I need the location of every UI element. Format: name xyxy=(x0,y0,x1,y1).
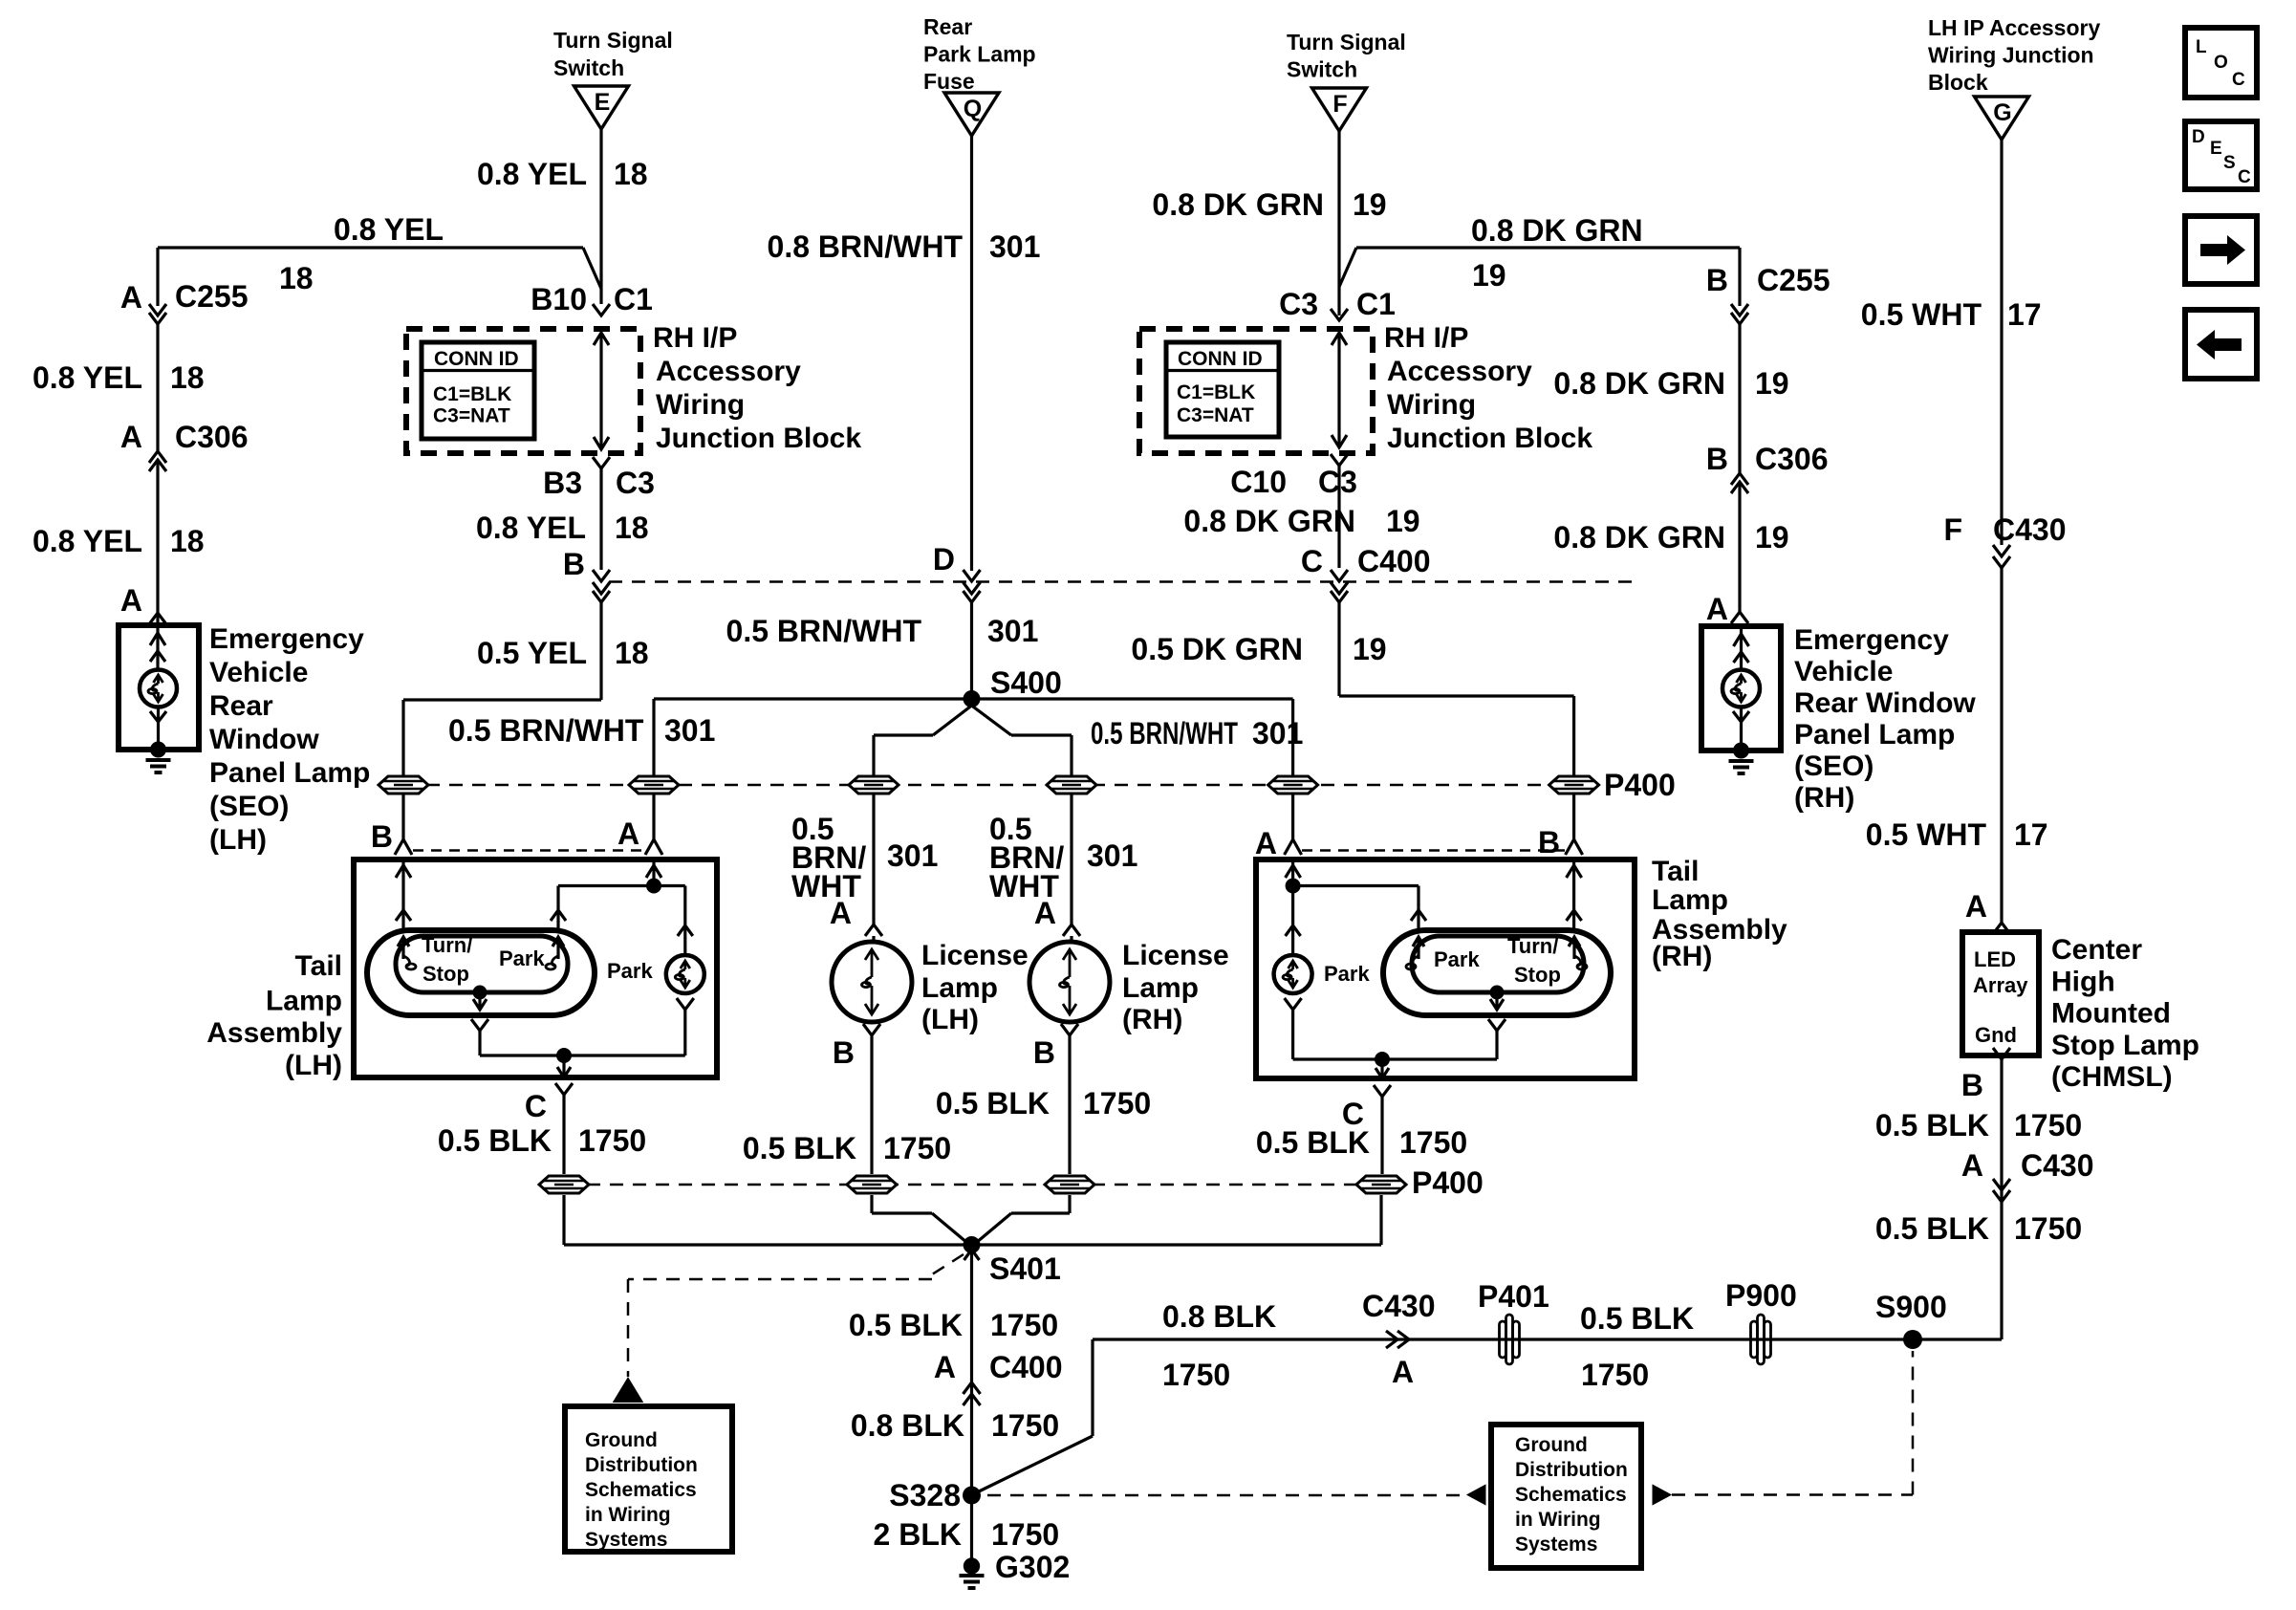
grommet license RH xyxy=(1047,776,1096,794)
svg-text:1750: 1750 xyxy=(1399,1125,1467,1160)
wire RH tail C to S401 xyxy=(1379,1195,1382,1245)
svg-text:0.5 BRN/WHT: 0.5 BRN/WHT xyxy=(726,614,922,648)
svg-text:301: 301 xyxy=(1087,838,1137,873)
Tail Lamp Assembly (LH) box xyxy=(354,859,717,1077)
LH tail B wire internal (Turn/Stop feed) xyxy=(401,859,404,930)
svg-text:0.5 BLK: 0.5 BLK xyxy=(743,1131,856,1165)
svg-text:0.8 YEL: 0.8 YEL xyxy=(32,524,142,558)
wire S400 right leg to RH tail A xyxy=(1291,699,1294,776)
wire 0.8 DK GRN branch to right (horizontal) xyxy=(1356,246,1740,249)
body pass-through dashed row2 xyxy=(564,1184,1381,1186)
EV RH lamp bottom Y xyxy=(1733,711,1749,722)
svg-text:Wiring: Wiring xyxy=(1387,389,1476,421)
RH tail A wire internal xyxy=(1291,859,1294,886)
splice S400 dot xyxy=(964,690,981,707)
wire license LH B to S401 xyxy=(870,1195,873,1213)
svg-text:0.5 BLK: 0.5 BLK xyxy=(1580,1301,1694,1336)
svg-text:19: 19 xyxy=(1386,504,1420,538)
svg-text:19: 19 xyxy=(1472,258,1506,293)
grommet license LH xyxy=(849,776,899,794)
svg-text:CONN ID: CONN ID xyxy=(1178,348,1263,370)
pin chevron B of CHMSL xyxy=(1993,1048,2010,1059)
svg-text:Lamp: Lamp xyxy=(921,972,998,1004)
wire 0.8 YEL 18 branch to C255 (horizontal) xyxy=(158,246,583,249)
LH stadium exit arrow xyxy=(478,992,481,1010)
LH tail A node dot xyxy=(646,879,661,894)
License Lamp (LH) bulb xyxy=(832,942,912,1022)
svg-text:Ground: Ground xyxy=(585,1429,658,1451)
pin chevron A of CHMSL xyxy=(1993,923,2010,934)
svg-text:Mounted: Mounted xyxy=(2051,998,2171,1030)
svg-text:0.8 YEL: 0.8 YEL xyxy=(334,212,444,247)
LH tail C node dot xyxy=(556,1048,572,1063)
svg-text:C3: C3 xyxy=(1279,287,1318,321)
svg-text:B: B xyxy=(1706,442,1728,476)
svg-text:1750: 1750 xyxy=(991,1517,1059,1552)
dashed ref from S401 to left ground box xyxy=(932,1254,964,1274)
svg-text:0.5 BLK: 0.5 BLK xyxy=(438,1123,552,1158)
svg-text:Vehicle: Vehicle xyxy=(1794,656,1893,687)
svg-text:(RH): (RH) xyxy=(1122,1004,1182,1035)
RH park circle bottom Y xyxy=(1285,998,1302,1010)
svg-text:301: 301 xyxy=(987,614,1038,648)
grommet LH tail B xyxy=(379,776,428,794)
svg-text:in Wiring: in Wiring xyxy=(1515,1509,1601,1531)
svg-text:Block: Block xyxy=(1928,70,1988,95)
LH filament common dot xyxy=(473,986,487,1000)
svg-text:Turn/: Turn/ xyxy=(1507,934,1558,958)
svg-text:1750: 1750 xyxy=(1162,1358,1230,1392)
ref arrow up (left ground box) xyxy=(615,1379,642,1402)
RH dual-filament bulb stadium xyxy=(1383,930,1611,1015)
connector C306 chevrons (right) xyxy=(1731,473,1748,485)
wire 0.5 WHT 17 from junction block G xyxy=(2000,140,2003,545)
ground symbol G (EV RH) xyxy=(1729,759,1754,763)
ground G302 dot xyxy=(964,1557,980,1574)
svg-text:A: A xyxy=(1034,896,1056,930)
S401 lower chevron xyxy=(964,1250,980,1260)
wire RH tail A drop xyxy=(1291,794,1294,839)
svg-text:19: 19 xyxy=(1353,187,1387,222)
svg-text:0.5 BLK: 0.5 BLK xyxy=(1875,1211,1989,1246)
license LH pin chevron xyxy=(865,925,882,936)
LH stadium exit Y xyxy=(471,1019,488,1031)
svg-text:Park: Park xyxy=(499,946,545,970)
svg-text:19: 19 xyxy=(1755,366,1789,401)
connector C430 chevrons (bus) xyxy=(1386,1331,1397,1348)
svg-text:0.5 BLK: 0.5 BLK xyxy=(1256,1125,1370,1160)
license RH bottom Y xyxy=(1061,1024,1078,1035)
svg-text:0.5 WHT: 0.5 WHT xyxy=(1866,817,1987,852)
svg-text:CONN ID: CONN ID xyxy=(434,348,519,370)
svg-text:RH I/P: RH I/P xyxy=(653,322,737,354)
svg-text:A: A xyxy=(830,896,852,930)
connector triangle F xyxy=(1312,88,1367,131)
LH bulb inner envelope xyxy=(396,936,568,992)
svg-text:C: C xyxy=(1301,544,1323,578)
svg-text:Park: Park xyxy=(1324,962,1370,986)
RH bulb inner envelope xyxy=(1412,936,1584,992)
legend box LOC xyxy=(2185,28,2257,98)
svg-text:18: 18 xyxy=(614,157,648,191)
svg-text:Panel Lamp: Panel Lamp xyxy=(209,757,370,789)
svg-text:Wiring Junction: Wiring Junction xyxy=(1928,43,2094,68)
wire LH tail B drop xyxy=(401,794,404,839)
svg-text:Gnd: Gnd xyxy=(1975,1023,2017,1047)
connector C/C400 chevrons xyxy=(1331,570,1348,581)
svg-text:C306: C306 xyxy=(1755,442,1829,476)
svg-text:L: L xyxy=(2196,37,2207,57)
RH tail bottom bus xyxy=(1293,1057,1497,1060)
svg-text:C1: C1 xyxy=(614,282,653,316)
svg-text:Park: Park xyxy=(607,959,653,983)
svg-text:E: E xyxy=(2210,139,2222,159)
grommet license RH B xyxy=(1045,1176,1094,1193)
svg-text:Wiring: Wiring xyxy=(656,389,745,421)
svg-text:A: A xyxy=(120,583,142,618)
svg-text:P400: P400 xyxy=(1604,768,1676,802)
svg-text:S400: S400 xyxy=(990,665,1062,700)
svg-text:High: High xyxy=(2051,966,2115,997)
license LH bottom Y xyxy=(863,1024,880,1035)
svg-text:LED: LED xyxy=(1974,947,2016,971)
svg-text:0.8 YEL: 0.8 YEL xyxy=(476,511,586,545)
svg-text:1750: 1750 xyxy=(991,1408,1059,1443)
connector A/C400 chevrons (bottom) xyxy=(964,1382,981,1394)
legend box right-arrow xyxy=(2185,216,2257,284)
pin chevron A of EV RH lamp xyxy=(1731,612,1748,623)
svg-text:1750: 1750 xyxy=(2014,1108,2082,1142)
LH tail bottom bus xyxy=(480,1054,685,1056)
RH filament common dot xyxy=(1490,986,1505,1000)
svg-text:(RH): (RH) xyxy=(1652,941,1712,972)
svg-text:B: B xyxy=(1033,1035,1055,1070)
grommet RH tail A xyxy=(1268,776,1318,794)
LH Turn/Stop filament xyxy=(401,937,404,959)
svg-text:C: C xyxy=(2232,70,2245,90)
EV LH lamp bulb xyxy=(140,670,177,707)
junction block2 internal arrow xyxy=(1337,333,1340,447)
grommet RH tail B / P400 xyxy=(1549,776,1599,794)
svg-text:1750: 1750 xyxy=(1083,1086,1151,1120)
LH tail A branch horizontal xyxy=(558,884,685,887)
wire 0.5 BRN/WHT to S400 xyxy=(970,602,973,699)
svg-text:0.5 BRN/WHT: 0.5 BRN/WHT xyxy=(1091,716,1238,751)
svg-text:C3=NAT: C3=NAT xyxy=(1177,404,1254,426)
svg-text:0.5 BRN/WHT: 0.5 BRN/WHT xyxy=(448,713,644,748)
EV RH internal arrow xyxy=(1740,626,1743,669)
svg-text:17: 17 xyxy=(2014,817,2048,852)
svg-text:C255: C255 xyxy=(175,279,249,314)
svg-text:0.8 DK GRN: 0.8 DK GRN xyxy=(1152,187,1324,222)
svg-text:Rear: Rear xyxy=(923,14,972,39)
connector C1 chevron (block1) xyxy=(593,304,610,315)
LH park circle bottom Y xyxy=(677,998,694,1010)
svg-text:1750: 1750 xyxy=(883,1131,951,1165)
svg-text:P400: P400 xyxy=(1412,1165,1484,1200)
svg-text:0.8 BLK: 0.8 BLK xyxy=(851,1408,964,1443)
wire license RH B to S401 xyxy=(1068,1195,1071,1213)
EV RH ground dot xyxy=(1733,743,1749,759)
svg-text:B: B xyxy=(563,547,585,581)
svg-text:Tail: Tail xyxy=(1652,856,1699,887)
svg-text:B3: B3 xyxy=(543,466,582,500)
svg-text:G: G xyxy=(1993,99,2011,126)
RH tail C pin chevron xyxy=(1374,1085,1391,1097)
svg-text:A: A xyxy=(1392,1355,1414,1389)
svg-text:Array: Array xyxy=(1973,973,2028,997)
svg-text:S328: S328 xyxy=(889,1478,961,1512)
wire S400 diagonals to license lamps xyxy=(933,706,972,735)
svg-text:B: B xyxy=(371,819,393,854)
LH park circle bulb xyxy=(666,955,704,993)
svg-text:A: A xyxy=(120,280,142,315)
svg-text:18: 18 xyxy=(170,524,205,558)
LH tail C exit xyxy=(562,1055,565,1077)
svg-text:D: D xyxy=(2192,127,2205,147)
firewall dashed line P400 row1 xyxy=(403,784,1573,787)
svg-text:0.8 BRN/WHT: 0.8 BRN/WHT xyxy=(768,229,964,264)
svg-text:(RH): (RH) xyxy=(1794,782,1854,814)
legend box DESC xyxy=(2185,121,2257,189)
svg-text:LH IP Accessory: LH IP Accessory xyxy=(1928,15,2100,40)
RH stadium exit Y xyxy=(1488,1019,1505,1031)
svg-text:301: 301 xyxy=(887,838,938,873)
svg-text:0.5 DK GRN: 0.5 DK GRN xyxy=(1131,632,1303,666)
svg-text:D: D xyxy=(933,542,955,577)
svg-text:(LH): (LH) xyxy=(209,824,267,856)
LH tail pin row dashed xyxy=(413,849,644,852)
svg-text:Switch: Switch xyxy=(553,55,624,80)
svg-text:in Wiring: in Wiring xyxy=(585,1504,671,1526)
wire S328 riser diagonal xyxy=(979,1436,1093,1491)
svg-text:Distribution: Distribution xyxy=(585,1454,698,1476)
svg-text:(CHMSL): (CHMSL) xyxy=(2051,1061,2173,1093)
svg-text:Assembly: Assembly xyxy=(206,1017,342,1049)
splice S328 dot xyxy=(963,1487,981,1505)
svg-text:F: F xyxy=(1332,91,1347,118)
firewall dashed line (C400) xyxy=(609,580,1637,583)
svg-text:0.5 BLK: 0.5 BLK xyxy=(936,1086,1050,1120)
svg-text:301: 301 xyxy=(664,713,715,748)
RH tail C exit xyxy=(1380,1059,1383,1078)
RH tail B wire internal (Turn/Stop feed) xyxy=(1572,859,1575,930)
Emergency Vehicle Rear Window Panel Lamp (SEO)(RH) box xyxy=(1701,626,1781,751)
svg-text:C3: C3 xyxy=(1318,465,1357,499)
svg-text:18: 18 xyxy=(615,511,649,545)
svg-text:17: 17 xyxy=(2007,297,2042,332)
wire 0.5 BLK from RH tail C xyxy=(1380,1097,1383,1174)
svg-text:Window: Window xyxy=(209,724,319,755)
svg-text:301: 301 xyxy=(1252,716,1303,751)
svg-text:C3=NAT: C3=NAT xyxy=(433,405,510,427)
svg-text:0.8 DK GRN: 0.8 DK GRN xyxy=(1553,366,1725,401)
wire 0.8 BRN/WHT 301 from fuse Q xyxy=(970,135,973,571)
svg-text:C1: C1 xyxy=(1356,287,1396,321)
wire RH tail B drop xyxy=(1572,794,1575,839)
svg-text:0.8 YEL: 0.8 YEL xyxy=(32,360,142,395)
svg-text:Distribution: Distribution xyxy=(1515,1459,1628,1481)
RH park filament feed xyxy=(1417,886,1419,931)
inline connector P900 xyxy=(1751,1315,1771,1364)
svg-text:License: License xyxy=(1122,940,1229,971)
svg-text:C306: C306 xyxy=(175,420,249,454)
svg-text:0.8 DK GRN: 0.8 DK GRN xyxy=(1183,504,1355,538)
svg-text:Turn/: Turn/ xyxy=(422,933,472,957)
svg-text:Schematics: Schematics xyxy=(1515,1484,1627,1506)
svg-text:18: 18 xyxy=(279,261,314,295)
wire 0.5 YEL to LH tail B xyxy=(599,602,602,700)
svg-text:A: A xyxy=(1961,1148,1983,1183)
grommet LH tail A xyxy=(629,776,679,794)
svg-text:Stop: Stop xyxy=(422,962,469,986)
pin chevron A of EV LH lamp xyxy=(149,613,166,624)
Center High Mounted Stop Lamp (CHMSL) box xyxy=(1962,932,2039,1055)
svg-text:301: 301 xyxy=(989,229,1040,264)
svg-text:0.8 YEL: 0.8 YEL xyxy=(477,157,587,191)
svg-text:(SEO): (SEO) xyxy=(209,791,289,822)
svg-text:Lamp: Lamp xyxy=(266,986,342,1017)
svg-text:0.5 BLK: 0.5 BLK xyxy=(1875,1108,1989,1142)
wire 0.5 WHT 17 to CHMSL xyxy=(2000,568,2003,923)
svg-text:Park Lamp: Park Lamp xyxy=(923,42,1036,67)
svg-text:18: 18 xyxy=(615,636,649,670)
RH I/P Accessory Wiring Junction Block 2 (dashed) xyxy=(1139,329,1373,453)
svg-text:Ground: Ground xyxy=(1515,1434,1588,1456)
svg-text:RH I/P: RH I/P xyxy=(1384,322,1468,354)
svg-text:S: S xyxy=(2223,153,2236,173)
svg-text:C430: C430 xyxy=(1993,512,2067,547)
svg-text:P900: P900 xyxy=(1725,1278,1797,1313)
svg-text:A: A xyxy=(617,816,639,851)
junction block1 internal arrow xyxy=(599,333,602,449)
LH park filament feed xyxy=(556,886,559,931)
RH Park filament xyxy=(1417,937,1419,959)
svg-text:Lamp: Lamp xyxy=(1652,884,1728,916)
svg-text:0.5 WHT: 0.5 WHT xyxy=(1861,297,1982,332)
wire 0.5 DK GRN to RH tail B xyxy=(1337,602,1340,696)
splice S900 dot xyxy=(1903,1330,1922,1349)
svg-text:2 BLK: 2 BLK xyxy=(874,1517,962,1552)
svg-text:S900: S900 xyxy=(1875,1290,1947,1324)
connector C255 chevrons xyxy=(156,248,159,306)
svg-text:G302: G302 xyxy=(995,1550,1070,1584)
svg-text:Junction Block: Junction Block xyxy=(1387,423,1592,454)
svg-text:(SEO): (SEO) xyxy=(1794,751,1874,782)
svg-text:1750: 1750 xyxy=(2014,1211,2082,1246)
svg-text:Tail: Tail xyxy=(295,950,342,982)
svg-text:Emergency: Emergency xyxy=(1794,624,1949,656)
connector C3 chevron below block1 xyxy=(593,457,610,468)
wire 0.8 BLK ground bus horizontal xyxy=(1093,1338,2002,1340)
svg-text:B10: B10 xyxy=(531,282,587,316)
wire 0.5 BLK S401 down xyxy=(970,1245,973,1566)
svg-text:0.8 DK GRN: 0.8 DK GRN xyxy=(1471,213,1643,248)
dashed ref S900 to right ground box xyxy=(1672,1493,1913,1496)
LH park circle feed xyxy=(683,886,686,956)
RH park circle feed xyxy=(1291,886,1294,956)
svg-text:Systems: Systems xyxy=(585,1529,667,1551)
svg-text:Stop Lamp: Stop Lamp xyxy=(2051,1030,2199,1061)
svg-text:C255: C255 xyxy=(1757,263,1830,297)
LH Park filament xyxy=(556,937,559,959)
CONN ID table (block1) xyxy=(422,342,534,439)
svg-text:0.5 YEL: 0.5 YEL xyxy=(477,636,587,670)
svg-text:C430: C430 xyxy=(1362,1289,1436,1323)
RH park circle bulb xyxy=(1274,955,1312,993)
svg-text:Accessory: Accessory xyxy=(1387,356,1532,387)
dashed ref S328 to right ground box xyxy=(987,1494,1466,1497)
RH tail pin row dashed xyxy=(1302,849,1565,852)
svg-text:A: A xyxy=(934,1350,956,1384)
License Lamp (RH) bulb xyxy=(1029,942,1110,1022)
RH stadium exit arrow xyxy=(1495,992,1498,1010)
Ground Distribution Schematics box (left) xyxy=(565,1406,732,1552)
connector F/C430 chevrons xyxy=(1993,545,2010,556)
svg-text:Rear: Rear xyxy=(209,690,273,722)
wire S400 left leg to LH tail A xyxy=(652,699,655,776)
LH tail C pin chevron xyxy=(555,1083,573,1095)
connector C3 chevron below block2 xyxy=(1331,454,1348,466)
grommet license LH B xyxy=(847,1176,897,1193)
EV LH internal arrow xyxy=(156,625,159,670)
svg-text:C3: C3 xyxy=(616,466,655,500)
svg-text:A: A xyxy=(1706,592,1728,626)
EV RH lamp bulb xyxy=(1722,670,1760,707)
svg-text:Fuse: Fuse xyxy=(923,69,975,94)
ground symbol G (EV LH) xyxy=(146,758,171,762)
svg-text:C430: C430 xyxy=(2021,1148,2094,1183)
LH dual-filament bulb stadium xyxy=(367,930,595,1015)
svg-text:1750: 1750 xyxy=(990,1308,1058,1342)
svg-text:E: E xyxy=(595,89,611,116)
connector triangle G xyxy=(1975,97,2029,140)
svg-text:Park: Park xyxy=(1434,947,1480,971)
svg-text:Q: Q xyxy=(964,96,982,122)
svg-text:O: O xyxy=(2214,53,2228,73)
svg-text:C10: C10 xyxy=(1230,465,1287,499)
svg-text:F: F xyxy=(1943,512,1962,547)
svg-text:Turn Signal: Turn Signal xyxy=(553,28,673,53)
svg-text:Systems: Systems xyxy=(1515,1534,1597,1556)
RH tail A node dot xyxy=(1286,879,1301,894)
wire 0.8 DK GRN 19 right branch down xyxy=(1738,248,1741,306)
EV LH ground dot xyxy=(150,742,166,758)
connector D/C400 chevrons xyxy=(964,570,981,581)
svg-text:1750: 1750 xyxy=(1581,1358,1649,1392)
svg-text:C400: C400 xyxy=(1357,544,1431,578)
ground symbol G302 xyxy=(960,1574,985,1577)
connector C255 chevrons (right) xyxy=(1731,304,1748,315)
svg-text:19: 19 xyxy=(1353,632,1387,666)
connector triangle Q xyxy=(944,93,999,136)
connector B/C400 chevrons at firewall xyxy=(593,570,610,581)
wire LH tail A drop xyxy=(652,794,655,839)
RH tail C node dot xyxy=(1375,1052,1390,1067)
svg-text:Schematics: Schematics xyxy=(585,1479,697,1501)
svg-text:B: B xyxy=(1961,1068,1983,1102)
svg-text:C: C xyxy=(525,1089,547,1123)
svg-text:C1=BLK: C1=BLK xyxy=(1177,381,1255,403)
Ground Distribution Schematics box (right) xyxy=(1491,1425,1641,1568)
splice S401 dot xyxy=(964,1236,981,1253)
svg-text:A: A xyxy=(120,420,142,454)
svg-text:B: B xyxy=(1706,263,1728,297)
grommet RH tail C / P400 row2 xyxy=(1356,1176,1406,1193)
svg-text:A: A xyxy=(1255,826,1277,860)
license RH pin chevron xyxy=(1063,925,1080,936)
svg-text:Lamp: Lamp xyxy=(1122,972,1199,1004)
